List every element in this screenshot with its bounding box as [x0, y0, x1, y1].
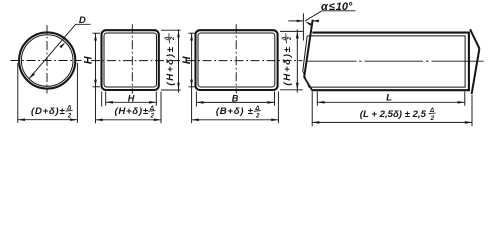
- view 2: left H ext tick bottom: [93, 86, 101, 88]
- view 2: right ext tick bottom: [161, 89, 181, 91]
- view 4: horizontal centerline dash 3: [432, 60, 484, 62]
- view 1: diameter line with leader and shelf to label D: [29, 24, 91, 78]
- shared (H+d) arrow down: [296, 83, 299, 90]
- svg-text:2: 2: [287, 36, 293, 41]
- shared (H+d) ext tick top: [280, 30, 303, 32]
- view 4: bottom outer ext line right: [471, 95, 473, 126]
- svg-text:L: L: [386, 92, 392, 103]
- view 3: left H arrow down: [190, 80, 193, 87]
- view 3: bottom (B+d) arrow right: [271, 119, 278, 122]
- svg-text:H: H: [82, 56, 94, 64]
- view 3: left H dimension line: [191, 33, 193, 123]
- view 2: bottom H dimension line: [106, 101, 157, 103]
- shared (H+d) ext tick bottom: [280, 89, 303, 91]
- view 4: bottom edge extension left: [311, 92, 313, 127]
- label (H+d)+-D/2 rotated right of view 3 (shared with view 4): [281, 33, 293, 85]
- view 4 bar: left end bottom closure: [304, 77, 312, 90]
- view 1: (D+d) extension line left: [17, 63, 19, 123]
- view 2: bottom (H+d) arrow left: [96, 119, 103, 122]
- view 3: bottom B arrow right: [267, 101, 274, 104]
- view 1: (D+d) arrow left: [18, 118, 25, 121]
- svg-text:2: 2: [430, 115, 435, 122]
- svg-text:(B+δ) ±: (B+δ) ±: [216, 106, 254, 117]
- view 2: left H dimension line: [95, 33, 97, 123]
- view 1 disc: inner circle (core): [21, 35, 73, 87]
- view 4: bottom L ext line left: [316, 92, 318, 106]
- angle dim: measure line left segment: [288, 20, 303, 22]
- view 4 bar: outer contour (top, right, bottom edges): [312, 33, 469, 91]
- svg-text:H: H: [181, 56, 193, 64]
- view 1: vertical centerline: [46, 25, 48, 94]
- view 2: bottom outer ext line right: [160, 92, 162, 124]
- view 2: right (H+d) arrow up: [177, 30, 180, 37]
- svg-text:(H+δ)±: (H+δ)±: [282, 45, 293, 85]
- view 4: bottom L ext line right: [464, 92, 466, 106]
- view 4 bar: left end bevel cut (outer slant): [304, 20, 313, 78]
- view 4: bottom L dimension line: [317, 101, 465, 103]
- angle dim: measure line right segment: [312, 20, 318, 22]
- view 3: vertical centerline: [235, 24, 237, 93]
- view 2: bottom (H+d) dimension line: [96, 119, 162, 121]
- view 1: diameter arrow upper-right: [59, 42, 65, 48]
- svg-text:2: 2: [149, 113, 154, 120]
- view 3 / view 4: shared (H+d) dimension line: [296, 29, 298, 92]
- view 2: vertical centerline: [131, 24, 133, 93]
- view 4: horizontal centerline dot 2: [426, 60, 429, 62]
- view 4: horizontal centerline dash 2: [365, 60, 424, 62]
- view 3: bottom B arrow left: [196, 101, 203, 104]
- svg-text:B: B: [232, 93, 239, 103]
- view 2 square: inner contour (core): [104, 33, 157, 87]
- view 4 bar: inner left bottom closure: [303, 71, 309, 87]
- view 3: horizontal centerline: [187, 60, 303, 62]
- shared (H+d) arrow up: [296, 31, 299, 38]
- view 2: bottom H ext line left: [105, 92, 107, 106]
- view 2 square: outer contour: [102, 30, 159, 90]
- view 3 rectangle: outer contour: [196, 30, 278, 90]
- view 4: bottom (L+2,5d) dimension line: [312, 121, 472, 123]
- view 2: bottom H arrow left: [106, 101, 113, 104]
- angle leader line with shelf: [305, 11, 355, 21]
- view 3: bottom (B+d) arrow left: [192, 119, 199, 122]
- view 3: left H ext tick bottom: [189, 86, 197, 88]
- svg-text:2: 2: [170, 36, 176, 41]
- view 2: left H arrow down: [94, 80, 97, 87]
- view 1: (D+d) extension line right: [76, 63, 78, 123]
- view 3: bottom edge extension left: [195, 92, 197, 107]
- svg-text:H: H: [128, 93, 135, 103]
- view 3 rectangle: inner contour (core): [198, 33, 275, 87]
- svg-text:D: D: [79, 15, 86, 26]
- view 3: left H ext tick top: [189, 32, 197, 34]
- view 2: right (H+d) dimension line: [178, 29, 180, 92]
- view 4: horizontal centerline dot 1: [359, 60, 362, 62]
- view 2: right (H+d) arrow down: [177, 83, 180, 90]
- view 3: bottom B dimension line: [196, 101, 274, 103]
- view 3: bottom B ext line right: [274, 92, 276, 106]
- view 4 bar: right end bevel lower: [472, 49, 480, 95]
- view 2: horizontal centerline: [91, 60, 181, 62]
- svg-text:α ≤ 10°: α ≤ 10°: [321, 1, 353, 13]
- view 2: bottom H ext line right: [155, 92, 157, 106]
- view 1: (D+d) dimension line: [18, 119, 78, 121]
- label (H+d)+-D/2 rotated right of view 2: [165, 33, 177, 85]
- view 4: bottom (L+2,5d) arrow right: [465, 121, 472, 124]
- view 4: horizontal centerline dash 1: [307, 60, 357, 62]
- svg-text:(D+δ)±: (D+δ)±: [31, 106, 65, 117]
- view 1 disc: outer circle: [19, 32, 75, 88]
- view 4 bar: right end bevel upper: [470, 29, 479, 48]
- view 2: left H ext tick top: [93, 32, 101, 34]
- angle dim: vertical extension line: [302, 13, 304, 40]
- svg-text:2: 2: [255, 113, 260, 120]
- angle dim: arrow pointing right at vertical: [297, 20, 304, 23]
- view 2: left H arrow up: [94, 33, 97, 40]
- view 1: horizontal centerline: [11, 60, 82, 62]
- view 4: bottom (L+2,5d) arrow left: [312, 121, 319, 124]
- svg-text:(L + 2,5δ) ± 2,5: (L + 2,5δ) ± 2,5: [360, 109, 427, 120]
- view 1: (D+d) arrow right: [70, 118, 77, 121]
- angle leader arrow: [305, 21, 312, 26]
- view 2: right ext tick top: [161, 29, 181, 31]
- view 4: bottom L arrow right: [458, 101, 465, 104]
- view 2: bottom edge extension left: [101, 92, 103, 107]
- svg-text:2: 2: [67, 113, 72, 120]
- view 3: bottom outer ext line right: [277, 92, 279, 124]
- view 3: left H arrow up: [190, 33, 193, 40]
- view 4: bottom L arrow left: [317, 101, 324, 104]
- view 1: diameter arrow lower-left: [29, 73, 35, 79]
- view 2: bottom H arrow right: [149, 101, 156, 104]
- view 4 bar: inner contour (core): [307, 36, 465, 87]
- angle dim: arrow pointing left at slant: [312, 20, 319, 23]
- view 2: bottom (H+d) arrow right: [154, 119, 161, 122]
- svg-text:(H+δ)±: (H+δ)±: [165, 45, 176, 85]
- svg-text:(H+δ)±: (H+δ)±: [114, 106, 148, 117]
- view 4 bar: inner left slant: [303, 36, 308, 72]
- view 3: bottom (B+d) dimension line: [192, 119, 279, 121]
